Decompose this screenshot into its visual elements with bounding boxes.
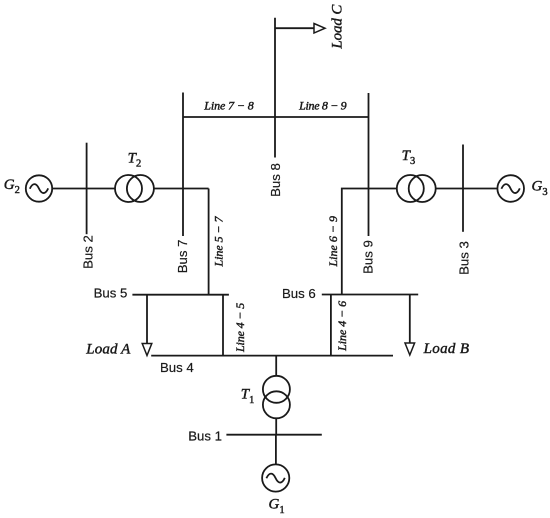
svg-text:Load C: Load C — [330, 4, 346, 50]
wire top line 7-8 / 8-9 — [183, 116, 369, 118]
svg-text:Bus 6: Bus 6 — [282, 286, 316, 301]
load B arrow — [405, 343, 415, 355]
generator G1 — [262, 464, 289, 491]
wire line 4-6 — [330, 295, 332, 356]
svg-text:Bus 4: Bus 4 — [160, 360, 194, 375]
wire T2 to corner — [154, 188, 209, 190]
bus 7 — [182, 93, 184, 237]
wire load B drop — [409, 295, 411, 344]
wire load C branch — [275, 27, 314, 29]
generator G3 — [497, 175, 524, 202]
svg-text:G2: G2 — [4, 177, 20, 196]
svg-text:Line 7 − 8: Line 7 − 8 — [203, 99, 254, 113]
transformer T3 — [397, 175, 424, 202]
svg-text:T1: T1 — [241, 387, 255, 406]
svg-text:G3: G3 — [532, 179, 548, 198]
transformer T2 — [115, 175, 142, 202]
svg-text:Bus 7: Bus 7 — [175, 240, 190, 274]
svg-text:Line 6 − 9: Line 6 − 9 — [326, 216, 340, 267]
svg-text:T2: T2 — [128, 150, 142, 169]
wire line 4-5 — [222, 295, 224, 356]
wire G2 to T2 — [52, 188, 115, 190]
transformer T1 — [263, 376, 290, 403]
wire bus1 to G1 — [275, 435, 277, 465]
wire load A drop — [146, 295, 148, 344]
bus 5 — [132, 294, 229, 296]
wire line 5-7 — [208, 189, 210, 295]
svg-text:Load A: Load A — [85, 342, 131, 358]
wire line 6-9 corner — [342, 189, 397, 295]
svg-text:G1: G1 — [269, 497, 285, 516]
bus 6 — [322, 294, 418, 296]
bus 2 — [86, 143, 88, 235]
svg-text:Line 5 − 7: Line 5 − 7 — [212, 216, 226, 268]
bus 8 — [274, 18, 276, 158]
bus 1 — [226, 434, 321, 436]
bus 9 — [368, 93, 370, 236]
svg-text:Bus 9: Bus 9 — [361, 240, 376, 274]
svg-text:Line 4 − 5: Line 4 − 5 — [233, 303, 247, 353]
svg-text:T3: T3 — [402, 148, 416, 167]
svg-text:Bus 8: Bus 8 — [268, 163, 283, 197]
generator G2 — [26, 175, 52, 201]
svg-text:Line 4 − 6: Line 4 − 6 — [335, 301, 349, 352]
svg-text:Bus 3: Bus 3 — [457, 241, 472, 275]
bus 3 — [462, 145, 464, 232]
wire T1 to bus1 — [275, 418, 277, 434]
svg-text:Bus 1: Bus 1 — [188, 429, 222, 444]
bus 4 — [151, 355, 393, 357]
svg-text:Load B: Load B — [423, 341, 469, 357]
svg-text:Bus 5: Bus 5 — [94, 286, 128, 301]
load C arrow — [314, 24, 325, 34]
svg-text:Bus 2: Bus 2 — [81, 235, 96, 269]
wire bus4 to T1 — [275, 356, 277, 376]
svg-text:Line 8 − 9: Line 8 − 9 — [298, 98, 347, 112]
load A arrow — [142, 344, 152, 356]
wire T3 to G3 — [436, 188, 498, 190]
